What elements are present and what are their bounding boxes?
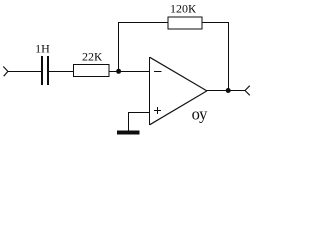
wire op-amp non-inverting input — [128, 112, 150, 114]
op-amp left edge — [149, 57, 151, 125]
output wire from op-amp apex — [207, 90, 245, 92]
feedback wire up from node A — [118, 23, 120, 72]
svg-text:120К: 120К — [170, 2, 197, 16]
svg-text:1Н: 1Н — [35, 41, 50, 55]
capacitor C1 right plate — [47, 56, 49, 85]
wire capacitor to resistor 22K — [48, 71, 74, 73]
ground bar — [117, 131, 140, 135]
wire resistor 22K to op-amp inverting input through node A — [109, 71, 150, 73]
input terminal X1 — [3, 67, 8, 77]
op-amp inverting input minus sign — [154, 71, 162, 73]
output terminal X2 — [245, 86, 250, 96]
feedback wire top right segment — [202, 22, 229, 24]
svg-text:оу: оу — [192, 105, 209, 124]
svg-text:22К: 22К — [82, 49, 103, 63]
feedback wire top left segment — [118, 22, 168, 24]
output node junction dot — [226, 88, 231, 93]
feedback wire down to output node — [228, 23, 230, 91]
wire down to ground — [128, 113, 130, 132]
resistor R1 22K body — [74, 65, 110, 77]
resistor R2 120K body — [168, 17, 202, 29]
op-amp non-inverting input plus sign vertical — [157, 107, 159, 114]
op-amp non-inverting input plus sign horizontal — [154, 110, 161, 112]
wire input to capacitor — [8, 71, 42, 73]
op-amp U1 upper hypotenuse — [150, 57, 207, 91]
op-amp U1 lower hypotenuse — [150, 91, 207, 125]
capacitor C1 left plate — [41, 56, 43, 85]
node A junction dot — [116, 69, 121, 74]
